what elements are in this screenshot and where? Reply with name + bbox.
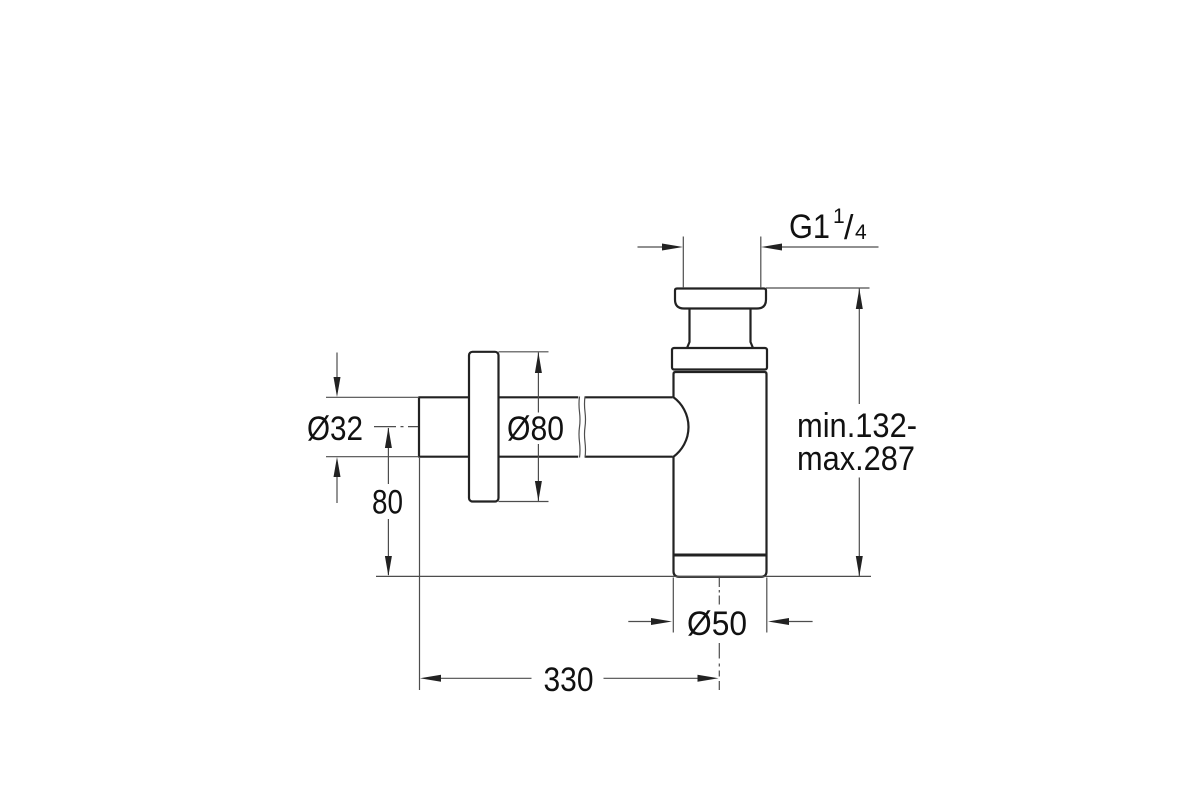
pipe break squiggle right [584, 397, 585, 458]
siphon body (vertical cup with rounded bottom) [674, 372, 767, 577]
svg-text:Ø32: Ø32 [307, 410, 363, 448]
pipe break squiggle left [579, 397, 580, 458]
pipe break symbol (white gap) [578, 396, 585, 459]
svg-text:/: / [844, 209, 854, 247]
pipe centerline (dash-dot) [374, 426, 418, 428]
min/max arrow up [856, 289, 863, 310]
svg-text:G1: G1 [789, 208, 830, 246]
min/max dimension line upper [858, 289, 860, 405]
O50 right arrow (pointing left) [787, 621, 813, 623]
horizontal outlet pipe [419, 397, 673, 456]
svg-text:Ø50: Ø50 [687, 605, 747, 643]
lower nut on body top [672, 348, 767, 370]
330 dimension line left with arrow [441, 677, 532, 679]
bottom reference baseline [376, 575, 871, 577]
svg-text:80: 80 [372, 484, 403, 522]
O50 left extension line [672, 578, 674, 633]
O80 top extension line [499, 351, 549, 353]
G1 1/4 extension line right [760, 237, 762, 289]
G1 1/4 extension line left [682, 237, 684, 289]
80 dimension line upper with up arrow [387, 428, 389, 484]
O32 top extension line [326, 396, 419, 398]
min/max dimension line lower [858, 478, 860, 577]
body seam line (cup joint) [674, 554, 766, 557]
min/max top extension line [766, 287, 870, 289]
330 dimension line right with arrow [604, 677, 698, 679]
O80 arrow down [535, 481, 542, 501]
O50 left arrow (pointing right) [628, 621, 653, 623]
O50 right extension line [766, 578, 768, 633]
O32 lower arrow (pointing up) [336, 475, 338, 503]
neck between nut and body [687, 309, 753, 349]
svg-text:4: 4 [855, 221, 867, 244]
O80 dimension line lower [537, 444, 539, 501]
body vertical centerline (dash-dot) [718, 578, 720, 690]
O80 bottom extension line [499, 501, 549, 503]
top connection nut [675, 289, 766, 309]
svg-text:Ø80: Ø80 [507, 410, 564, 448]
O32 bottom extension line [326, 456, 419, 458]
wall escutcheon flange [469, 352, 499, 502]
O80 arrow up [535, 352, 542, 373]
330 left extension line [419, 458, 421, 690]
svg-text:max.287: max.287 [797, 440, 915, 478]
svg-text:1: 1 [833, 205, 845, 228]
svg-text:330: 330 [544, 661, 594, 699]
G1 1/4 dimension line right with arrow [780, 246, 879, 248]
G1 1/4 dimension line left with arrow [638, 246, 665, 248]
O80 dimension line upper [537, 352, 539, 412]
min/max arrow down [856, 556, 863, 576]
80 dimension line lower with down arrow [387, 519, 389, 575]
O32 upper arrow (pointing down) [336, 353, 338, 380]
